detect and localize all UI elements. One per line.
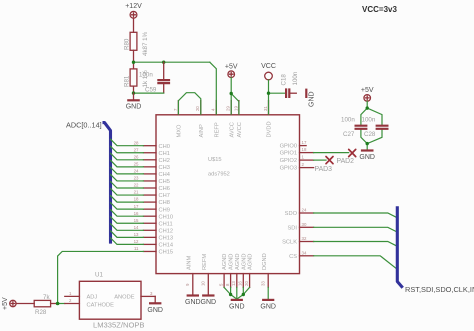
svg-text:SDO: SDO [285, 211, 298, 217]
wire SDO to bus [314, 213, 398, 218]
svg-text:GND: GND [309, 91, 316, 107]
svg-text:CH4: CH4 [159, 172, 170, 178]
junction node at R81 bottom [132, 91, 135, 94]
junction node AGND right [242, 293, 245, 296]
resistor R28 [34, 294, 57, 316]
svg-text:21: 21 [134, 190, 139, 195]
svg-text:U$15: U$15 [208, 157, 222, 163]
svg-text:R80: R80 [124, 38, 131, 50]
svg-text:100n: 100n [362, 117, 376, 124]
pin MXO (pin 7) top [173, 101, 183, 138]
pin CS (pin 34) [289, 250, 314, 260]
wire net from R80/R81 junction to REFP (left part) [134, 61, 210, 63]
wire bus to CH5 [111, 174, 144, 181]
svg-text:100n: 100n [292, 71, 299, 85]
wire bus to CH13 [111, 231, 144, 238]
svg-text:C28: C28 [364, 131, 376, 138]
resistor R81 [124, 62, 150, 93]
wire bus to CH2 [111, 153, 144, 160]
pin ADJ (pin 1) [65, 291, 98, 301]
svg-text:VCC: VCC [261, 63, 276, 70]
svg-text:GND: GND [185, 299, 201, 306]
junction node AGND left [229, 293, 232, 296]
svg-text:19: 19 [233, 106, 238, 111]
pin CH10 (pin 16) [134, 211, 173, 221]
+5V supply at AVCC [225, 63, 238, 77]
pin AGND (pin 13) [231, 254, 241, 288]
pin CH4 (pin 24) [134, 169, 170, 179]
pin REFP (pin 4) top [211, 101, 221, 138]
svg-text:AGND: AGND [241, 254, 247, 270]
svg-text:AGND: AGND [235, 254, 241, 270]
svg-text:20: 20 [195, 106, 200, 111]
svg-text:ANODE: ANODE [114, 295, 134, 301]
+5V supply at C27/C28 [361, 87, 374, 101]
wire MXO to AINP [178, 93, 200, 115]
svg-text:CH0: CH0 [159, 144, 170, 150]
svg-text:GPIO2: GPIO2 [280, 158, 297, 164]
svg-text:GND: GND [126, 104, 142, 111]
op U1 LM335Z body [79, 272, 144, 330]
svg-text:34: 34 [302, 250, 307, 255]
wire bus to CH1 [111, 146, 144, 153]
pin AVCC (pin 29) top [226, 101, 236, 138]
wire bus to CH7 [111, 189, 144, 196]
svg-text:31: 31 [263, 106, 268, 111]
wire bus to CH9 [111, 203, 144, 210]
pin DVDD (pin 31) top [263, 101, 273, 138]
svg-text:+12V: +12V [125, 3, 142, 10]
svg-text:+5V: +5V [225, 63, 238, 70]
pin GPIO2 (pin 1) [280, 155, 314, 165]
pin AGND (pin 16) [238, 254, 248, 288]
svg-text:7k: 7k [43, 294, 50, 301]
svg-text:100n: 100n [341, 117, 355, 124]
wire CH15 to LM335 junction [58, 251, 144, 303]
+12V supply symbol [125, 3, 142, 32]
svg-text:16: 16 [134, 211, 139, 216]
svg-text:PAD3: PAD3 [315, 166, 333, 173]
wire GPIO1 to no-connect [314, 152, 349, 154]
pin AINM (pin 9) [185, 256, 193, 295]
wire R28 to U1 pin2 [58, 303, 65, 305]
svg-text:12: 12 [134, 239, 139, 244]
svg-text:15: 15 [134, 218, 139, 223]
junction node at C59 top [162, 61, 165, 64]
svg-text:20: 20 [244, 281, 249, 286]
svg-text:27: 27 [134, 147, 139, 152]
svg-text:GND: GND [147, 307, 163, 314]
svg-text:AINP: AINP [199, 124, 205, 137]
svg-text:GND: GND [260, 304, 276, 311]
svg-text:CH7: CH7 [159, 193, 170, 199]
pin DGND (pin 33) [261, 253, 269, 287]
wire bus to CH11 [111, 217, 144, 224]
pin SDO (pin 24) [285, 208, 314, 218]
svg-text:AGND: AGND [229, 254, 235, 270]
junction node at R28/CH15 [56, 302, 60, 306]
svg-text:RST,SDI,SDO,CLK,IN: RST,SDI,SDO,CLK,IN [405, 285, 474, 294]
wire bus to CH0 [111, 139, 144, 146]
+5V supply at R28 [2, 297, 34, 310]
svg-text:30: 30 [302, 222, 307, 227]
svg-text:10: 10 [201, 281, 206, 286]
svg-text:25: 25 [134, 161, 139, 166]
pin AINP (pin 20) top [195, 101, 205, 138]
svg-text:CH6: CH6 [159, 186, 170, 192]
pin CH9 (pin 17) [134, 204, 170, 214]
junction node AVCC [230, 92, 233, 95]
svg-text:29: 29 [226, 106, 231, 111]
capacitor C59 [139, 62, 170, 93]
pin CH0 (pin 28) [134, 140, 170, 150]
pin CH14 (pin 12) [134, 239, 173, 249]
svg-text:CH8: CH8 [159, 200, 170, 206]
wire bus to CH10 [111, 210, 144, 217]
svg-text:16: 16 [238, 281, 243, 286]
svg-text:SCLK: SCLK [282, 240, 297, 246]
svg-text:AGND: AGND [222, 254, 228, 270]
bus RST,SDI,SDO,CLK [397, 206, 402, 288]
svg-text:R81: R81 [124, 75, 131, 87]
wire bus to CH12 [111, 224, 144, 231]
pin AVCC (pin 19) top [233, 101, 243, 138]
pin CH6 (pin 22) [134, 183, 170, 193]
pin CH3 (pin 25) [134, 161, 170, 171]
svg-text:LM335Z/NOPB: LM335Z/NOPB [93, 321, 145, 330]
pin REFM (pin 10) [201, 254, 209, 295]
svg-text:100n: 100n [139, 72, 153, 79]
svg-text:R28: R28 [35, 309, 47, 316]
svg-text:SDI: SDI [288, 225, 298, 231]
pin AGND (pin 20) [244, 254, 254, 288]
svg-text:GND: GND [229, 304, 245, 311]
pin CATHODE (pin 2) [65, 298, 114, 308]
op IC U$15 ads7952 body [156, 115, 300, 274]
wire AGND pins to ground [224, 287, 250, 299]
svg-text:11: 11 [134, 246, 139, 251]
svg-text:17: 17 [302, 140, 307, 145]
wire CS to bus [314, 256, 398, 269]
svg-text:CH14: CH14 [159, 243, 174, 249]
pin CH15 (pin 11) [134, 246, 173, 256]
svg-text:AVCC: AVCC [229, 122, 235, 137]
ground GND right of C18 [306, 89, 315, 107]
no-connect X on PAD2 [326, 157, 333, 164]
svg-text:+5V: +5V [361, 87, 374, 94]
pin CH8 (pin 18) [134, 197, 170, 207]
svg-text:PAD2: PAD2 [337, 158, 355, 165]
svg-text:CH12: CH12 [159, 228, 174, 234]
svg-text:26: 26 [134, 154, 139, 159]
pin CH7 (pin 21) [134, 190, 170, 200]
svg-text:13: 13 [134, 232, 139, 237]
VCC supply symbol [261, 63, 276, 80]
pin SCLK (pin 32) [282, 236, 313, 246]
svg-text:CH9: CH9 [159, 207, 170, 213]
svg-text:23: 23 [134, 176, 139, 181]
wire SCLK to bus [314, 242, 398, 247]
svg-text:+5V: +5V [2, 297, 9, 310]
pin CH5 (pin 23) [134, 176, 170, 186]
svg-text:CH5: CH5 [159, 179, 170, 185]
svg-text:ADC[0..14]: ADC[0..14] [66, 120, 102, 129]
pin CH11 (pin 15) [134, 218, 173, 228]
svg-text:ADJ: ADJ [87, 295, 98, 301]
svg-text:U1: U1 [95, 272, 103, 279]
svg-text:CH11: CH11 [159, 221, 173, 227]
svg-text:AINM: AINM [187, 256, 193, 270]
svg-text:GPIO0: GPIO0 [280, 144, 297, 150]
svg-text:CS: CS [289, 254, 297, 260]
svg-text:18: 18 [302, 147, 307, 152]
svg-text:CH15: CH15 [159, 250, 174, 256]
svg-text:14: 14 [134, 225, 139, 230]
svg-text:24: 24 [302, 208, 307, 213]
wire GPIO2 to PAD2 [314, 159, 326, 161]
wire bus to CH8 [111, 196, 144, 203]
wire bus to CH4 [111, 167, 144, 174]
ground GND at REFM [201, 296, 217, 307]
svg-text:CH2: CH2 [159, 158, 170, 164]
resistor R80 [124, 31, 150, 61]
capacitor C28 [362, 117, 389, 138]
junction node top of loop [366, 106, 369, 109]
svg-text:24: 24 [134, 169, 139, 174]
wire bus to CH6 [111, 182, 144, 189]
wire junction to REFP [210, 62, 217, 114]
svg-text:ads7952: ads7952 [208, 172, 230, 178]
svg-text:C18: C18 [281, 74, 288, 86]
svg-text:CH13: CH13 [159, 235, 174, 241]
pin AGND (pin 8) [225, 254, 235, 288]
pin AGND (pin 5) [219, 254, 229, 288]
pin GPIO0 (pin 17) [280, 140, 307, 150]
svg-text:13: 13 [231, 281, 236, 286]
svg-text:17: 17 [134, 204, 139, 209]
svg-text:C27: C27 [343, 131, 355, 138]
svg-text:22: 22 [134, 183, 139, 188]
svg-text:4k87 1%: 4k87 1% [142, 31, 149, 56]
pin CH12 (pin 14) [134, 225, 173, 235]
wire SDI to bus [314, 227, 398, 232]
wire R81 bottom to C59 bottom [134, 92, 164, 94]
ground GND at ANODE [147, 296, 163, 313]
pin ANODE (pin 3) [114, 291, 155, 301]
svg-text:CH1: CH1 [159, 151, 170, 157]
svg-text:DGND: DGND [262, 253, 268, 270]
pin SDI (pin 30) [288, 222, 314, 232]
svg-text:MXO: MXO [177, 124, 183, 138]
svg-text:REFM: REFM [202, 254, 208, 270]
pin CH1 (pin 27) [134, 147, 170, 157]
svg-text:DVDD: DVDD [267, 121, 273, 137]
svg-text:GPIO1: GPIO1 [280, 151, 297, 157]
capacitor C18 [281, 71, 300, 98]
ground GND at AGND [229, 300, 245, 311]
svg-text:GND: GND [359, 154, 375, 161]
no-connect X on GPIO1 [349, 149, 356, 156]
bus ADC[0..14] [66, 120, 111, 243]
svg-text:AGND: AGND [248, 254, 254, 270]
svg-text:GPIO3: GPIO3 [280, 166, 297, 172]
wire +5V to AVCC pins [231, 78, 239, 115]
ground GND at AINM [185, 296, 201, 307]
pin GPIO3 (pin 2) [280, 162, 314, 172]
svg-text:REFP: REFP [214, 122, 220, 137]
capacitor C27 [341, 117, 367, 138]
svg-text:GND: GND [201, 299, 217, 306]
svg-text:18: 18 [134, 197, 139, 202]
wire bus to CH14 [111, 238, 144, 245]
wire VCC to DVDD [269, 80, 286, 114]
svg-text:32: 32 [302, 236, 307, 241]
pin GPIO1 (pin 18) [280, 147, 314, 157]
ground GND below R81 [126, 93, 142, 110]
svg-text:AVCC: AVCC [237, 122, 243, 137]
junction node bottom of loop [366, 142, 369, 145]
svg-text:CH3: CH3 [159, 165, 170, 171]
pin CH2 (pin 26) [134, 154, 170, 164]
ground GND at DGND [260, 300, 276, 311]
junction node DVDD [267, 92, 270, 95]
svg-text:VCC=3v3: VCC=3v3 [362, 5, 397, 14]
svg-text:C59: C59 [145, 87, 157, 94]
wire DGND to ground [267, 287, 269, 299]
ground GND below caps [359, 151, 375, 162]
wire +5V to caps loop [361, 101, 382, 150]
svg-text:CH10: CH10 [159, 214, 174, 220]
svg-text:33: 33 [261, 281, 266, 286]
junction node at R80/R81 [132, 61, 135, 64]
wire bus to CH3 [111, 160, 144, 167]
svg-text:CATHODE: CATHODE [87, 303, 115, 309]
pin CH13 (pin 13) [134, 232, 173, 242]
svg-text:28: 28 [134, 140, 139, 145]
